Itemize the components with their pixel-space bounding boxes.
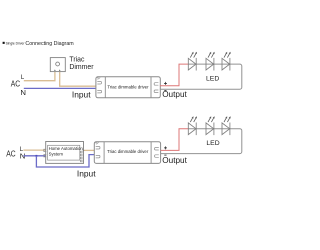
- wire dimmer output (tan) to driver input: [60, 71, 96, 86]
- svg-text:AC: AC: [6, 150, 16, 159]
- U3 left terminal 2: [96, 155, 100, 158]
- triac dimmable driver U1 outer body: [96, 77, 160, 98]
- wire output + (red) to LED string: [160, 64, 188, 86]
- LED D6: [222, 123, 230, 136]
- svg-text:Triac dimmable driver: Triac dimmable driver: [107, 84, 149, 89]
- wire L (tan) AC to home automation system: [23, 149, 45, 151]
- LED D4: [188, 123, 196, 136]
- U2 inner section: [48, 145, 80, 160]
- LED D1 emission arrows: [190, 54, 196, 58]
- LED D3: [222, 58, 230, 71]
- svg-text:Input: Input: [77, 168, 96, 178]
- LED D4 emission arrows: [190, 118, 196, 122]
- U3 left terminal 1: [96, 147, 100, 150]
- svg-text:Output: Output: [162, 90, 187, 99]
- U1 right cap divider: [150, 77, 152, 98]
- home automation system U2 outer body: [46, 142, 84, 164]
- LED D3 emission arrows: [224, 54, 230, 58]
- label - (top output): [164, 90, 166, 92]
- svg-text:N: N: [20, 88, 26, 97]
- triac dimmer SW1 box: [50, 58, 65, 72]
- LED D2 emission arrows: [208, 54, 214, 58]
- svg-text:Home Automation: Home Automation: [49, 146, 84, 151]
- label + (top output): [164, 82, 167, 85]
- svg-text:System: System: [49, 151, 64, 156]
- U3 right terminal 1: [155, 148, 159, 151]
- wire output + (red) to LED string (bottom): [161, 129, 189, 151]
- svg-text:Triac dimmable driver: Triac dimmable driver: [107, 149, 149, 154]
- U1 left cap divider: [104, 77, 106, 98]
- LED D1: [188, 58, 196, 71]
- triac dimmable driver U3 outer body: [94, 142, 160, 164]
- LED D2: [206, 58, 214, 71]
- label - (bottom output): [164, 154, 166, 156]
- U2 left terminal 1: [44, 149, 47, 151]
- wire LED string axis: [160, 64, 242, 89]
- svg-text:LED: LED: [206, 75, 219, 82]
- dimmer pin 2 mark: [59, 69, 61, 71]
- U3 left cap divider: [103, 142, 105, 164]
- LED D5: [206, 123, 214, 136]
- node N junction: [36, 155, 38, 157]
- svg-text:Dimmer: Dimmer: [69, 64, 94, 71]
- wire N (blue) AC to HA box: [23, 155, 45, 157]
- U1 strain relief mark top-left: [97, 77, 100, 80]
- label + (bottom output): [164, 146, 167, 149]
- dimmer knob circle: [56, 62, 60, 66]
- LED D6 emission arrows: [224, 118, 230, 122]
- dimmer pin 1 mark: [54, 69, 56, 71]
- wire LED string axis (bottom): [161, 129, 242, 154]
- svg-text:LED: LED: [206, 140, 219, 147]
- svg-text:Triac: Triac: [69, 56, 85, 63]
- title bullet: [3, 42, 5, 44]
- U3 right terminal 2: [155, 155, 159, 158]
- wire N bypass (blue) under HA box to driver: [36, 155, 94, 167]
- U2 left terminal 2: [44, 155, 47, 157]
- U2 output arrow mark: [83, 149, 85, 151]
- U3 right cap divider: [150, 142, 152, 164]
- wire N (blue) from AC N to driver input: [24, 87, 96, 89]
- U1 left terminal 2: [97, 90, 101, 93]
- svg-text:Output: Output: [162, 156, 187, 165]
- LED D5 emission arrows: [208, 118, 214, 122]
- U3 strain relief mark top-left: [95, 142, 98, 145]
- U2 right terminal strip: [81, 151, 83, 162]
- U1 right terminal 1: [154, 83, 158, 86]
- svg-text:Input: Input: [72, 89, 91, 99]
- wire L (tan) from AC L to dimmer left pin: [24, 71, 55, 81]
- wire HA output (tan) to driver input: [84, 149, 95, 151]
- U1 left terminal 1: [97, 82, 101, 85]
- U1 right terminal 2: [154, 90, 158, 93]
- svg-text:AC: AC: [11, 80, 21, 89]
